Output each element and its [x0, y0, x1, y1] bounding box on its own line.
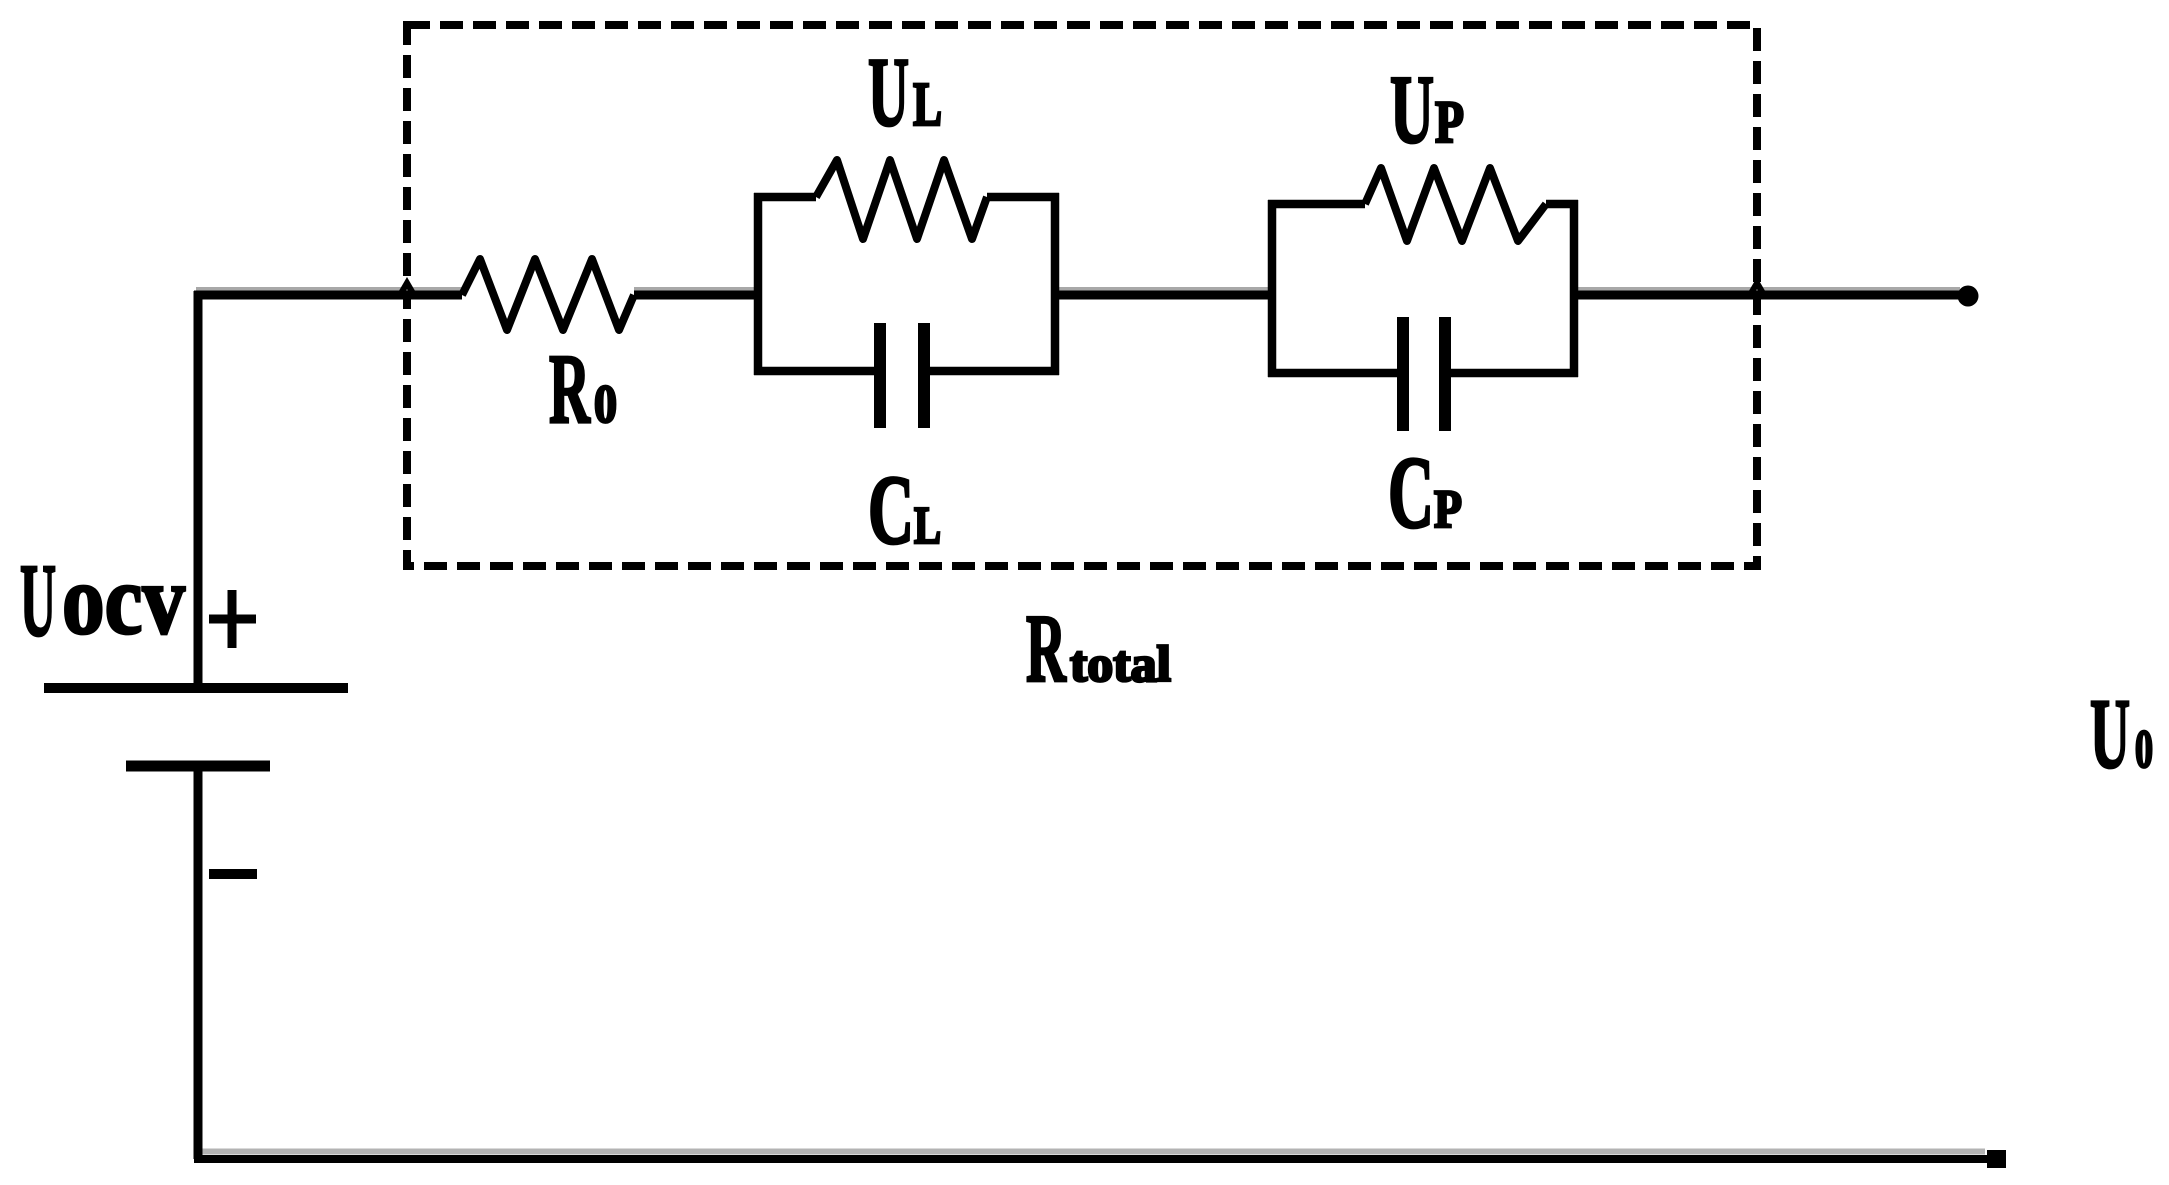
battery Uocv positive plate (long) [44, 683, 348, 693]
wire: top node from battery to R0 [194, 291, 462, 300]
label R0 [549, 333, 617, 444]
RC block 1 top edge left segment [754, 193, 816, 202]
svg-text:R: R [549, 333, 591, 444]
RC block 1 left edge [754, 193, 763, 375]
wire: bottom return rail [194, 1155, 1990, 1163]
minus sign at battery negative [209, 869, 257, 879]
wire: RC block 1 to RC block 2 [1055, 291, 1272, 300]
svg-text:U: U [2090, 678, 2130, 789]
node: output terminal top (dot) [1958, 286, 1979, 307]
svg-text:L: L [913, 71, 942, 139]
label CP [1388, 436, 1462, 550]
label U0 (output voltage) [2090, 678, 2153, 789]
resistor R0 [462, 259, 634, 330]
svg-text:ocv: ocv [62, 544, 185, 655]
svg-text:P: P [1434, 479, 1462, 539]
label UL [868, 38, 942, 147]
node bump where wire crosses dashed border (right) [1750, 283, 1764, 295]
svg-text:R: R [1026, 595, 1067, 702]
capacitor CL left plate [874, 323, 886, 428]
RC block 2 bottom edge right segment [1450, 369, 1578, 378]
capacitor CP left plate [1397, 317, 1409, 431]
svg-text:L: L [914, 497, 941, 555]
svg-text:U: U [1390, 56, 1434, 163]
RC block 1 bottom edge left segment [754, 367, 877, 376]
RC block 1 right edge [1051, 193, 1060, 375]
label Uocv [20, 543, 185, 658]
svg-text:total: total [1070, 637, 1171, 693]
wire: RC block 2 to output terminal [1574, 291, 1964, 300]
svg-text:0: 0 [2135, 719, 2153, 779]
wire: battery negative vertical down to bottom rail [194, 766, 203, 1159]
RC block 1 bottom edge right segment [928, 367, 1059, 376]
svg-text:0: 0 [594, 374, 617, 434]
label CL [868, 456, 941, 565]
battery Uocv negative plate (short) [126, 761, 270, 772]
plus sign at battery positive [209, 590, 256, 648]
svg-text:C: C [868, 456, 914, 565]
resistor UP zigzag [1365, 168, 1546, 241]
wire: gray fringe above top node wires [196, 287, 1960, 291]
capacitor CP right plate [1439, 317, 1451, 431]
capacitor CL right plate [918, 323, 930, 428]
RC block 1 top edge right segment [987, 193, 1059, 202]
RC block 2 bottom edge left segment [1268, 369, 1398, 378]
svg-text:C: C [1388, 436, 1434, 550]
RC block 2 left edge [1268, 200, 1277, 377]
label Rtotal [1026, 595, 1171, 702]
wire: R0 to RC block 1 [634, 291, 758, 300]
svg-text:U: U [868, 38, 909, 147]
node: output terminal bottom (dot) [1987, 1150, 2006, 1168]
node bump where wire crosses dashed border (left) [400, 283, 414, 295]
svg-text:U: U [20, 543, 56, 658]
svg-text:P: P [1435, 89, 1464, 155]
label UP [1390, 56, 1464, 163]
wire: battery positive vertical [194, 291, 203, 686]
resistor UL zigzag [816, 160, 987, 239]
RC block 2 top edge right segment [1546, 200, 1578, 209]
RC block 2 right edge [1570, 200, 1579, 377]
RC block 2 top edge left segment [1268, 200, 1365, 209]
dashed box Rtotal boundary [407, 25, 1757, 566]
wire: gray fringe above bottom rail [200, 1149, 1985, 1155]
